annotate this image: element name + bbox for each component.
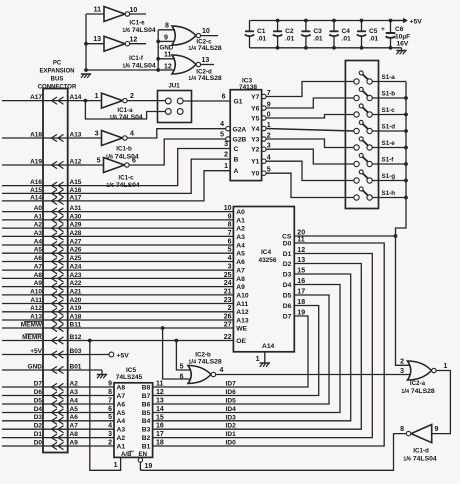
inverter IC1-e (104, 7, 125, 22)
svg-text:27: 27 (224, 321, 232, 328)
svg-text:A7: A7 (117, 393, 126, 400)
svg-text:A6: A6 (34, 255, 43, 262)
wire IC2-a out to IC1-d in (432, 371, 451, 434)
svg-text:4: 4 (108, 423, 112, 430)
bus row A1/A30 wire (2, 219, 68, 221)
svg-text:A/B: A/B (121, 451, 132, 458)
junction C6 top (389, 19, 393, 23)
wire Y1 to S1-g (266, 161, 354, 180)
svg-text:S1-f: S1-f (382, 157, 395, 164)
svg-text:A8: A8 (236, 276, 245, 283)
wire MEMR to IC4 OE (68, 340, 234, 342)
svg-text:ID0: ID0 (226, 440, 237, 447)
svg-text:1/4 74LS28: 1/4 74LS28 (188, 75, 222, 82)
svg-text:11: 11 (94, 7, 102, 14)
wire IC1-d out to IC5 EN (140, 434, 406, 471)
svg-text:2: 2 (400, 358, 404, 365)
svg-text:D2: D2 (34, 423, 43, 430)
wire bus to IC4 A5 (68, 252, 234, 254)
junction MEMW to IC2-b (161, 326, 165, 330)
svg-text:ID3: ID3 (226, 414, 237, 421)
wire node to IC2-a input 2 (396, 236, 410, 365)
svg-text:IC2-a: IC2-a (410, 380, 426, 387)
svg-text:WE: WE (236, 325, 247, 332)
inverter IC1-a (102, 93, 123, 108)
svg-text:S1-a: S1-a (382, 74, 396, 81)
switch S1-b (354, 95, 359, 100)
svg-text:Y1: Y1 (251, 159, 259, 166)
IC3 G2A input bubble (226, 127, 230, 131)
bus row A14/A17 wire (2, 200, 68, 202)
svg-text:A18: A18 (30, 131, 42, 138)
svg-text:D1: D1 (34, 431, 43, 438)
ground at B01 (97, 374, 107, 376)
svg-text:S1-h: S1-h (382, 190, 396, 197)
svg-text:1: 1 (224, 163, 228, 170)
NOR gate IC2-b (188, 366, 211, 384)
svg-text:A14: A14 (30, 194, 42, 201)
svg-text:A6: A6 (117, 401, 126, 408)
bus row A10/A21 wire (2, 294, 68, 296)
svg-text:C6: C6 (395, 26, 404, 33)
bus row MEMW/B11 wire (2, 327, 68, 329)
svg-text:C3: C3 (313, 28, 322, 35)
svg-text:ID5: ID5 (226, 398, 237, 405)
switch S1-a (354, 79, 359, 84)
junction S1-c on bus (404, 113, 408, 117)
svg-text:13: 13 (93, 36, 101, 43)
svg-text:3: 3 (228, 264, 232, 271)
bus row A4/A27 wire (2, 244, 68, 246)
wire A14 to JU1 lower pin (85, 101, 165, 119)
svg-text:A17: A17 (30, 94, 42, 101)
svg-text:A1: A1 (236, 217, 245, 224)
ground for unused gate inputs (81, 73, 91, 75)
svg-text:A15: A15 (30, 187, 42, 194)
svg-text:.01: .01 (342, 36, 351, 43)
svg-text:IC1-d: IC1-d (413, 448, 429, 455)
svg-text:+5V: +5V (117, 352, 130, 359)
wire bus to IC4 A3 (68, 235, 234, 237)
bus row A12/A19 wire (2, 311, 68, 313)
wire IC4 D3 to ID3 (153, 274, 351, 421)
svg-text:.01: .01 (257, 36, 266, 43)
svg-text:+: + (381, 26, 385, 33)
svg-text:25: 25 (224, 272, 232, 279)
NOR gate IC2-d (172, 55, 196, 74)
svg-text:Y4: Y4 (251, 126, 259, 133)
svg-text:10µF: 10µF (395, 34, 410, 41)
svg-text:A16: A16 (30, 179, 42, 186)
wire MEMW to IC2-b pin 6 (163, 328, 191, 379)
svg-text:5: 5 (220, 132, 224, 139)
wire bus D to IC5 A4 (68, 420, 114, 422)
capacitor C4 (333, 21, 335, 32)
svg-text:S1-g: S1-g (382, 173, 396, 180)
svg-text:D0: D0 (34, 439, 43, 446)
svg-text:9: 9 (164, 35, 168, 42)
svg-text:4: 4 (220, 121, 224, 128)
bus row +5V/B03 wire (2, 354, 68, 356)
bus row A9/A22 wire (2, 286, 68, 288)
svg-text:C: C (234, 146, 239, 153)
junction C4 top (332, 19, 336, 23)
svg-text:A5: A5 (236, 251, 245, 258)
svg-text:1/6 74LS04: 1/6 74LS04 (109, 114, 143, 121)
svg-text:5: 5 (180, 363, 184, 370)
svg-text:21: 21 (224, 288, 232, 295)
svg-text:B3: B3 (142, 427, 151, 434)
svg-text:.01: .01 (369, 36, 378, 43)
wire Y2 to S1-f (266, 149, 354, 164)
svg-text:A2: A2 (34, 222, 43, 229)
svg-text:ID2: ID2 (226, 423, 237, 430)
svg-text:Y0: Y0 (251, 171, 259, 178)
svg-text:A0: A0 (236, 209, 245, 216)
junction C5 bottom (360, 46, 364, 50)
svg-text:B8: B8 (142, 384, 151, 391)
+5V rail (top) (250, 20, 402, 22)
svg-text:26: 26 (224, 313, 232, 320)
svg-text:D7: D7 (34, 380, 43, 387)
svg-text:4: 4 (130, 131, 134, 138)
svg-text:MEMR: MEMR (22, 334, 42, 341)
svg-text:PC: PC (53, 61, 62, 67)
svg-text:A12: A12 (236, 309, 249, 316)
svg-text:16V: 16V (397, 41, 409, 48)
svg-text:12: 12 (164, 64, 172, 71)
ground at IC4 A14 (260, 362, 270, 364)
wire IC4 D4 to ID4 (153, 285, 340, 413)
wire grounding IC1-e/IC1-f inputs (85, 14, 87, 70)
svg-text:1/6 74LS04: 1/6 74LS04 (403, 456, 437, 463)
svg-text:17: 17 (156, 431, 164, 438)
svg-text:D6: D6 (283, 303, 292, 310)
svg-text:A4: A4 (117, 418, 126, 425)
bus row A19/A12 wire (2, 164, 68, 166)
svg-text:A8: A8 (117, 384, 126, 391)
bus row A11/A20 wire (2, 303, 68, 305)
svg-text:.01: .01 (285, 36, 294, 43)
svg-text:D4: D4 (34, 406, 43, 413)
svg-text:4: 4 (228, 255, 232, 262)
wire bus D to IC5 A2 (68, 437, 114, 439)
wire bus to IC4 A12 (68, 311, 234, 313)
svg-text:1: 1 (444, 363, 448, 370)
wire IC4 D6 to ID6 (153, 306, 319, 396)
svg-text:A5: A5 (34, 247, 43, 254)
svg-text:8: 8 (108, 389, 112, 396)
svg-text:IC4: IC4 (261, 249, 272, 256)
svg-text:8: 8 (400, 426, 404, 433)
wire B03 to +5V (68, 354, 109, 356)
junction MEMR to IC2-b (175, 339, 179, 343)
svg-text:IC1-c: IC1-c (118, 175, 134, 182)
svg-text:EN: EN (139, 451, 147, 458)
wire IC2-b out to IC2-a pin 3 (216, 374, 410, 376)
wire IC4 D0 to ID0 (153, 243, 385, 446)
junction S1-h on bus (404, 196, 408, 200)
switch block S1 body (345, 61, 378, 209)
svg-text:S1-b: S1-b (382, 91, 396, 98)
svg-text:8: 8 (228, 222, 232, 229)
junction S1-e on bus (404, 146, 408, 150)
svg-text:CS: CS (282, 233, 292, 240)
svg-text:C1: C1 (257, 28, 266, 35)
junction C5 top (360, 19, 364, 23)
svg-text:3: 3 (95, 131, 99, 138)
svg-text:ID4: ID4 (226, 406, 237, 413)
switch S1-d (354, 128, 359, 133)
svg-text:6: 6 (228, 238, 232, 245)
wire Y7 to S1-a (266, 82, 354, 97)
bus row A7/A24 wire (2, 269, 68, 271)
junction C4 bottom (332, 46, 336, 50)
bus row MEMR/B12 wire (2, 340, 68, 342)
svg-text:5: 5 (228, 247, 232, 254)
bus row A17/A14 wire (2, 100, 68, 102)
wire IC4 D2 to ID2 (153, 264, 362, 430)
capacitor C2 (277, 21, 279, 32)
svg-text:A12: A12 (30, 305, 42, 312)
svg-text:MEMW: MEMW (21, 321, 43, 328)
svg-text:ID1: ID1 (226, 431, 237, 438)
svg-text:A4: A4 (236, 242, 245, 249)
wire IC1-c out to G2B (129, 139, 226, 165)
svg-text:10: 10 (202, 28, 210, 35)
svg-text:B4: B4 (142, 418, 151, 425)
wire bus to IC4 A11 (68, 303, 234, 305)
wire bus D to IC5 A5 (68, 412, 114, 414)
wire IC4 CS to node (294, 235, 395, 237)
wire Y6 to S1-b (266, 98, 354, 108)
wire bus D to IC5 A7 (68, 395, 114, 397)
wire grounding IC2-c/IC2-d inputs (157, 30, 159, 70)
bus row A8/A23 wire (2, 277, 68, 279)
svg-text:G2B: G2B (233, 137, 247, 144)
svg-text:IC5: IC5 (126, 367, 137, 374)
svg-text:+5V: +5V (30, 348, 42, 355)
junction S1-g on bus (404, 179, 408, 183)
junction C3 top (304, 19, 308, 23)
wire bus D to IC5 A1 (68, 445, 114, 447)
+5V supply arrow (391, 20, 404, 22)
svg-text:2: 2 (130, 93, 134, 100)
svg-text:BUS: BUS (51, 77, 64, 83)
wire IC4 D1 to ID1 (153, 254, 373, 438)
wire bus to IC4 A4 (68, 244, 234, 246)
svg-text:D5: D5 (283, 292, 292, 299)
svg-text:D2: D2 (283, 261, 292, 268)
svg-text:A7: A7 (236, 268, 245, 275)
svg-text:A13: A13 (30, 313, 42, 320)
junction C3 bottom (304, 46, 308, 50)
svg-text:18: 18 (156, 440, 164, 447)
svg-text:7: 7 (228, 230, 232, 237)
svg-text:G2A: G2A (233, 126, 247, 133)
svg-text:B5: B5 (142, 410, 151, 417)
wire bus to IC4 A10 (68, 294, 234, 296)
svg-text:A19: A19 (30, 158, 42, 165)
svg-text:A0: A0 (34, 205, 43, 212)
svg-text:A13: A13 (70, 131, 82, 138)
svg-text:G1: G1 (234, 99, 243, 106)
svg-text:1/4 74LS28: 1/4 74LS28 (188, 45, 222, 52)
svg-text:C4: C4 (342, 28, 351, 35)
wire bus to IC4 A7 (68, 269, 234, 271)
svg-text:11: 11 (156, 381, 164, 388)
inverter IC1-b (102, 131, 123, 146)
svg-text:3: 3 (224, 141, 228, 148)
inverter IC1-c (104, 158, 125, 173)
bus row D6/A3 wire (2, 395, 68, 397)
svg-text:Y7: Y7 (251, 94, 259, 101)
svg-text:D1: D1 (283, 251, 292, 258)
junction S1-d on bus (404, 129, 408, 133)
wire A16 to IC3 B (68, 159, 231, 193)
svg-text:D4: D4 (283, 282, 292, 289)
svg-text:12: 12 (130, 37, 138, 44)
node A14 junction (84, 99, 88, 103)
svg-text:A9: A9 (236, 284, 245, 291)
svg-text:3: 3 (108, 431, 112, 438)
IC4 A14 pin 1 to ground (264, 352, 266, 363)
bus row A15/A16 wire (2, 192, 68, 194)
svg-text:A7: A7 (34, 264, 43, 271)
svg-text:A2: A2 (117, 435, 126, 442)
svg-text:S1-c: S1-c (382, 107, 396, 114)
wire JU1 to IC3 G1 (183, 100, 231, 102)
wire IC4 D5 to ID5 (153, 295, 329, 404)
svg-text:22: 22 (224, 334, 232, 341)
svg-text:1: 1 (256, 356, 260, 363)
switch S1-g (354, 178, 359, 183)
switch S1-f (354, 161, 359, 166)
bus row GND/B01 wire (2, 369, 68, 371)
svg-text:A6: A6 (236, 259, 245, 266)
svg-text:A3: A3 (34, 230, 43, 237)
wire bus to IC4 A0 (68, 211, 234, 213)
svg-text:19: 19 (145, 463, 153, 470)
junction C6 bottom (389, 46, 393, 50)
svg-text:43256: 43256 (258, 257, 276, 264)
svg-text:OE: OE (236, 338, 246, 345)
wire A17 to IC3 A (68, 171, 231, 201)
svg-text:D0: D0 (283, 240, 292, 247)
svg-text:IC1-b: IC1-b (116, 146, 132, 153)
svg-text:A11: A11 (236, 301, 248, 308)
svg-text:IC1-a: IC1-a (117, 107, 133, 114)
switch S1-e (354, 145, 359, 150)
svg-text:1/4 74LS28: 1/4 74LS28 (401, 388, 435, 395)
svg-text:A27: A27 (70, 238, 82, 245)
capacitor C1 (249, 21, 251, 32)
junction S1-b on bus (404, 96, 408, 100)
svg-text:10: 10 (224, 205, 232, 212)
svg-text:D6: D6 (34, 389, 43, 396)
svg-text:8: 8 (165, 23, 169, 30)
svg-text:D5: D5 (34, 397, 43, 404)
svg-text:1: 1 (95, 93, 99, 100)
svg-text:7: 7 (108, 397, 112, 404)
svg-text:A4: A4 (34, 238, 43, 245)
bus row D7/A2 wire (2, 386, 68, 388)
capacitor rail (bottom) (250, 47, 402, 49)
wire Y0 to S1-h (266, 173, 354, 197)
bus row D2/A7 wire (2, 428, 68, 430)
svg-text:B1: B1 (142, 443, 151, 450)
svg-text:S1-d: S1-d (382, 124, 396, 131)
svg-text:5: 5 (108, 414, 112, 421)
svg-text:5: 5 (97, 158, 101, 165)
svg-text:3: 3 (400, 368, 404, 375)
wire Y4 to S1-d (266, 129, 354, 132)
bus row A16/A15 wire (2, 185, 68, 187)
svg-text:IC1-e: IC1-e (129, 20, 145, 27)
bus row A6/A25 wire (2, 261, 68, 263)
wire bus D to IC5 A8 (68, 386, 114, 388)
svg-text:JU1: JU1 (168, 83, 180, 90)
svg-text:A: A (234, 168, 239, 175)
wire bus to IC4 A2 (68, 227, 234, 229)
svg-text:IC1-f: IC1-f (129, 55, 144, 62)
svg-text:A14: A14 (262, 343, 275, 350)
svg-text:11: 11 (164, 52, 172, 59)
svg-text:2: 2 (108, 439, 112, 446)
svg-text:9: 9 (108, 380, 112, 387)
capacitor C6 (electrolytic) (390, 21, 392, 34)
svg-text:Y2: Y2 (251, 147, 259, 154)
svg-text:A3: A3 (117, 427, 126, 434)
svg-text:A8: A8 (34, 272, 43, 279)
wire bus to IC4 A1 (68, 219, 234, 221)
svg-text:6: 6 (222, 94, 226, 101)
svg-text:A12: A12 (70, 158, 82, 165)
svg-text:EXPANSION: EXPANSION (40, 69, 75, 75)
bus row A2/A29 wire (2, 227, 68, 229)
bus row D5/A4 wire (2, 403, 68, 405)
junction MEMR to IC5 A/B (88, 339, 92, 343)
svg-text:GND: GND (28, 363, 43, 370)
svg-text:A1: A1 (117, 443, 126, 450)
IC5 A/B pin 1 wire to MEMR (90, 341, 121, 471)
IC5 EN pin 19 bubble (138, 458, 142, 462)
svg-text:ID7: ID7 (226, 381, 237, 388)
inverter IC1-f (104, 36, 125, 51)
svg-text:Y5: Y5 (251, 115, 259, 122)
svg-text:A31: A31 (70, 205, 82, 212)
bus row D0/A9 wire (2, 445, 68, 447)
svg-text:B: B (234, 157, 239, 164)
wire bus to IC4 A13 (68, 319, 234, 321)
svg-text:A10: A10 (236, 292, 249, 299)
svg-text:Y6: Y6 (251, 105, 259, 112)
NOR gate IC2-c (172, 26, 196, 45)
svg-text:A9: A9 (34, 280, 43, 287)
svg-text:A13: A13 (236, 317, 249, 324)
ground at capacitor rail (396, 50, 406, 52)
junction C2 top (276, 19, 280, 23)
bus row A5/A26 wire (2, 252, 68, 254)
svg-text:16: 16 (156, 423, 164, 430)
svg-text:13: 13 (202, 57, 210, 64)
bus row A18/A13 wire (2, 137, 68, 139)
wire IC1-b out to G2A (127, 129, 226, 138)
capacitor C3 (305, 21, 307, 32)
NOR gate IC2-a (408, 361, 432, 380)
svg-text:D3: D3 (34, 414, 43, 421)
wire bus to IC4 A9 (68, 286, 234, 288)
